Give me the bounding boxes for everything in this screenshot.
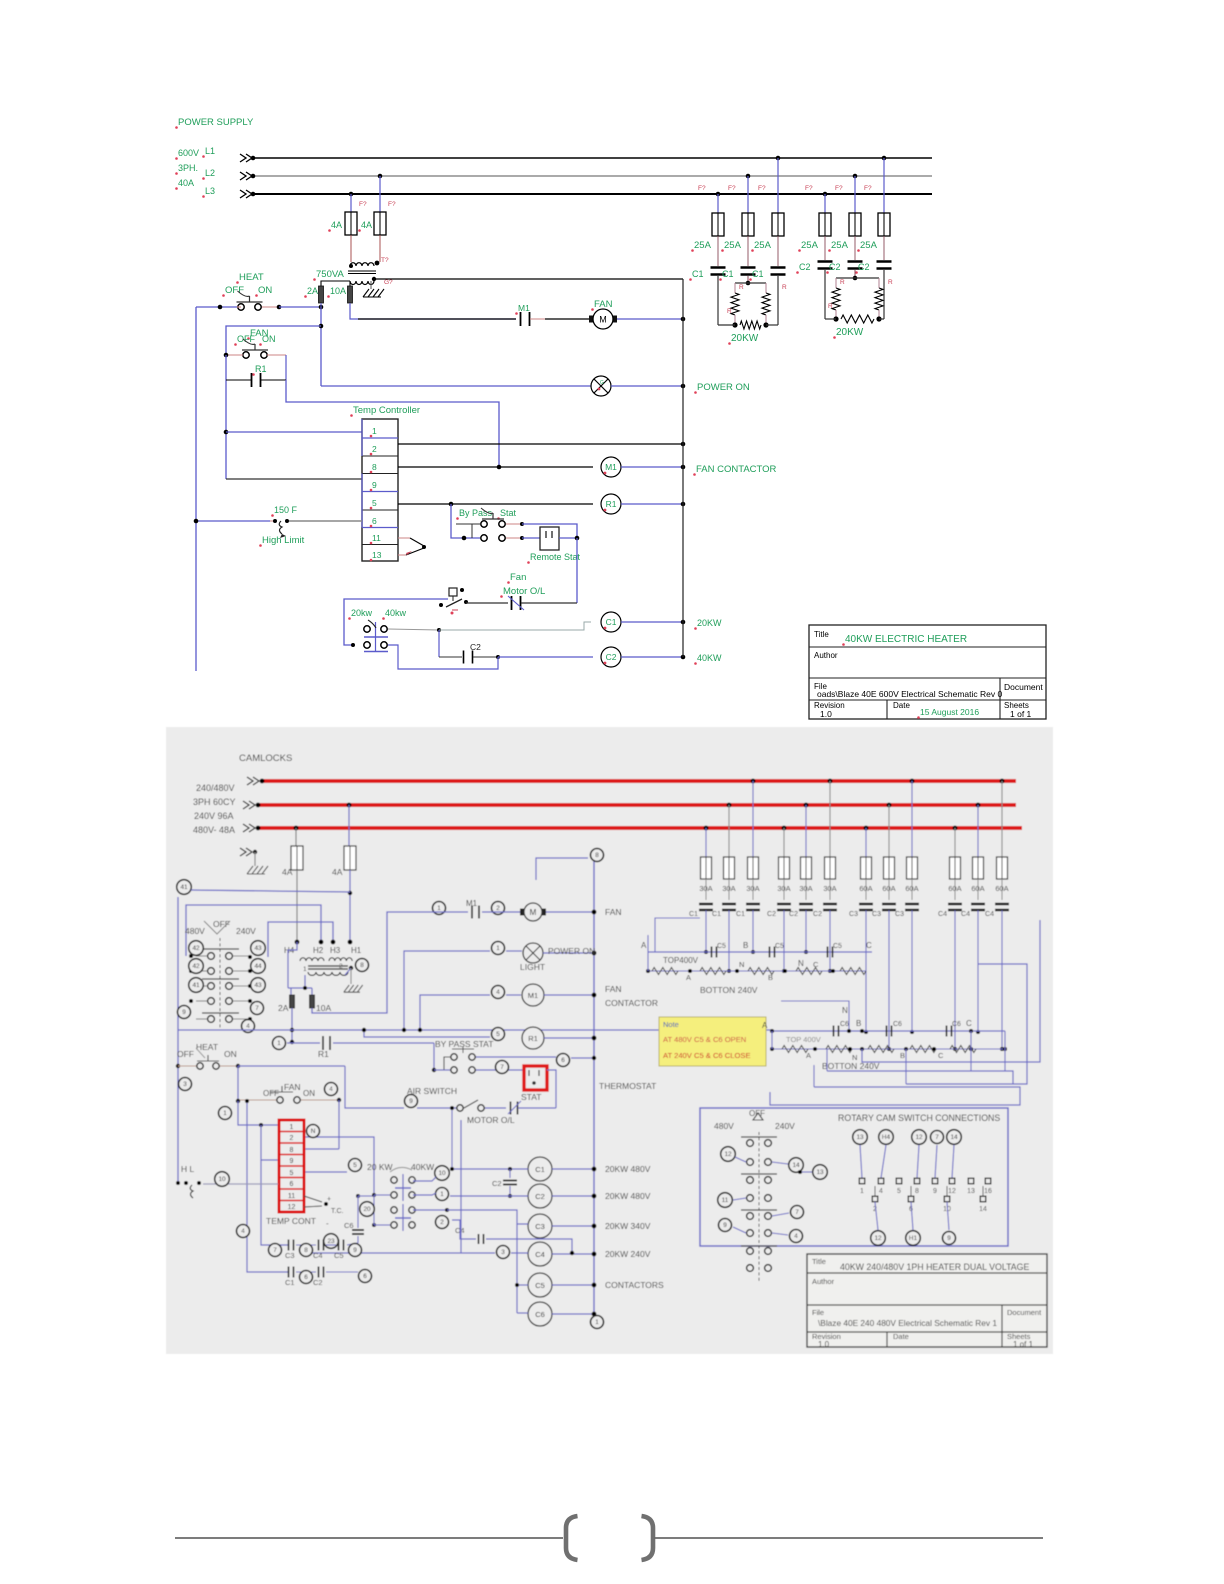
svg-text:20kw: 20kw <box>351 608 373 618</box>
svg-text:Title: Title <box>814 630 829 639</box>
net2 N riser <box>848 1013 850 1031</box>
AIR SWITCH row <box>345 1066 404 1108</box>
node L2 tap for control fuse F2 <box>378 174 383 179</box>
bypass contacts bottom <box>451 1054 457 1060</box>
svg-text:25A: 25A <box>831 240 849 251</box>
circled 4 fan <box>325 1083 338 1096</box>
fuse 60A col 7 <box>864 826 869 831</box>
fuse 25A column x=825 <box>823 192 828 197</box>
bus L1 red <box>262 779 1016 783</box>
svg-text:20KW: 20KW <box>836 327 864 338</box>
svg-text:6: 6 <box>561 1057 565 1064</box>
network 1 resistor row <box>648 970 866 972</box>
circled 7 <box>251 1002 264 1015</box>
net1 risers <box>647 935 649 971</box>
R1 coil row bottom <box>364 1030 490 1037</box>
C1 row wiring <box>413 1177 436 1181</box>
circled 23 <box>324 1234 339 1249</box>
svg-text:BOTTON 240V: BOTTON 240V <box>700 985 758 995</box>
fuse 60A col 10 <box>953 826 958 831</box>
node fuse2A bottom <box>319 305 324 310</box>
svg-text:FAN CONTACTOR: FAN CONTACTOR <box>696 464 777 475</box>
aux contact C2 <box>439 656 462 658</box>
wire R1 coil to rail <box>621 503 683 505</box>
circled 8 transformer <box>356 959 369 972</box>
svg-text:G: G <box>600 380 604 386</box>
net2 long returns <box>970 1031 972 1071</box>
R1 contact row bottom <box>273 1037 286 1050</box>
fuse 4A #1 bottom schem <box>291 846 303 870</box>
svg-text:B: B <box>900 1051 905 1060</box>
wire 2A fuse to HEAT row <box>320 303 322 307</box>
svg-text:20: 20 <box>363 1206 371 1213</box>
svg-text:H1: H1 <box>909 1235 918 1242</box>
wire selector bottom path <box>388 645 498 669</box>
rotary selector stem <box>758 1132 760 1282</box>
svg-text:C6: C6 <box>344 1221 354 1230</box>
contactor contact C4 col 11 <box>971 903 985 905</box>
svg-text:R1: R1 <box>255 364 267 374</box>
circled 9 air <box>405 1095 418 1108</box>
wire bottom contact <box>506 537 522 539</box>
svg-text:15 August 2016: 15 August 2016 <box>920 707 979 717</box>
HEAT switch bottom schem <box>176 1064 180 1068</box>
svg-text:9: 9 <box>372 480 377 490</box>
contactor contact C4 col 12 <box>995 903 1009 905</box>
svg-text:14: 14 <box>979 1206 987 1213</box>
contactor contact C4 col 10 <box>948 903 962 905</box>
svg-text:C: C <box>866 941 872 950</box>
svg-text:750VA: 750VA <box>316 269 344 280</box>
wire FAN switch out <box>267 354 286 356</box>
svg-text:5: 5 <box>897 1188 901 1195</box>
wire HEAT switch to node <box>262 306 321 308</box>
wire M1 coil to rail <box>621 466 683 468</box>
contactor contact C1 x=748 <box>741 266 756 269</box>
wire R1 contact branch <box>285 355 287 380</box>
svg-text:1.0: 1.0 <box>818 1340 830 1349</box>
motor FAN <box>589 316 594 323</box>
svg-text:H L: H L <box>181 1164 195 1174</box>
svg-text:2: 2 <box>440 1219 444 1226</box>
wire heat row right <box>238 1065 345 1067</box>
motor OL contact <box>510 1102 512 1115</box>
svg-text:MOTOR O/L: MOTOR O/L <box>467 1115 515 1125</box>
svg-text:Fan: Fan <box>510 572 526 583</box>
circled 42 b <box>189 959 204 974</box>
svg-text:C5: C5 <box>833 943 842 950</box>
wire C1 coil to rail <box>621 621 683 623</box>
wire C2 coil to rail <box>621 656 683 658</box>
wire 20kw selector feed <box>344 599 448 645</box>
svg-text:25A: 25A <box>724 240 742 251</box>
red STAT box <box>524 1066 547 1090</box>
svg-text:9: 9 <box>182 1009 186 1016</box>
svg-text:6: 6 <box>290 1181 294 1188</box>
svg-text:R: R <box>727 308 732 315</box>
network 2 resistor row <box>772 1048 1005 1050</box>
node L3 tap for control fuse F1 <box>349 192 354 197</box>
fuse 4A #2 bottom schem <box>344 846 356 870</box>
svg-text:5: 5 <box>290 1170 294 1177</box>
wire pin1 <box>226 431 362 433</box>
svg-text:5: 5 <box>353 1162 357 1169</box>
svg-text:8: 8 <box>304 1247 308 1254</box>
svg-text:M1: M1 <box>518 303 530 313</box>
thermocouple lines from pins 11 13 <box>398 537 410 539</box>
svg-text:40A: 40A <box>178 178 194 188</box>
contactor contact C3 col 9 <box>905 903 919 905</box>
svg-text:4A: 4A <box>282 867 293 877</box>
ground symbol <box>363 289 369 297</box>
svg-text:B: B <box>768 973 773 982</box>
rotary circled 14 <box>789 1158 804 1173</box>
transformer ground stub b <box>350 968 352 984</box>
stub net2 mid <box>905 1049 907 1084</box>
temp controller blue highlights <box>362 437 398 439</box>
rotary circled 12 <box>721 1147 736 1162</box>
heater resistor bottom <box>740 321 761 329</box>
circled 41 node <box>177 880 192 895</box>
wire pin9 <box>226 478 362 480</box>
svg-text:C1: C1 <box>722 269 734 279</box>
svg-text:FAN: FAN <box>284 1082 301 1092</box>
wire bus3 to 4A fuse 1 <box>295 828 297 846</box>
svg-text:14: 14 <box>792 1162 800 1169</box>
svg-text:12: 12 <box>948 1188 956 1195</box>
svg-text:N: N <box>739 960 744 969</box>
svg-text:CONTACTORS: CONTACTORS <box>605 1280 664 1290</box>
contact M1 (fan motor) <box>520 312 522 326</box>
svg-text:Author: Author <box>812 1277 835 1286</box>
wire 10A to fan feed <box>312 912 430 1013</box>
title block bottom schematic <box>807 1254 1047 1347</box>
svg-text:3: 3 <box>183 1081 187 1088</box>
wire bus2 to 4A fuse 2 <box>348 805 350 846</box>
svg-text:4: 4 <box>241 1228 245 1235</box>
wire stat box right <box>547 1070 556 1108</box>
return run y1087 <box>770 1087 1020 1105</box>
svg-text:C: C <box>966 1019 972 1028</box>
node bus2 to fuse F2 <box>347 803 352 808</box>
rotary circled 13 <box>813 1165 828 1180</box>
svg-text:HEAT: HEAT <box>239 272 264 283</box>
wire to 2A fuse <box>290 988 292 995</box>
svg-text:Document: Document <box>1004 682 1043 692</box>
wire R1 branch to pin8 row <box>286 380 499 467</box>
remote stat box <box>540 527 559 550</box>
svg-text:9: 9 <box>947 1235 951 1242</box>
FAN branch vertical left <box>225 355 227 479</box>
POWER ON row bottom <box>404 951 490 1030</box>
svg-text:25A: 25A <box>694 240 712 251</box>
svg-text:M1: M1 <box>605 462 617 472</box>
long vertical x261 <box>261 1160 288 1245</box>
svg-text:20 KW: 20 KW <box>367 1162 393 1172</box>
svg-text:FAN: FAN <box>594 299 613 310</box>
svg-text:9: 9 <box>723 1222 727 1229</box>
wire 2A down to R1 row <box>291 1008 293 1043</box>
svg-text:CAMLOCKS: CAMLOCKS <box>239 753 292 764</box>
pin2 wire to kw selector <box>304 1137 374 1195</box>
svg-text:Document: Document <box>1007 1308 1042 1317</box>
svg-text:M: M <box>599 315 607 325</box>
pilot lamp POWER ON <box>591 376 611 396</box>
svg-text:Temp Controller: Temp Controller <box>353 405 420 416</box>
svg-text:HEAT: HEAT <box>196 1042 218 1052</box>
svg-text:4A: 4A <box>331 220 342 230</box>
svg-text:8: 8 <box>360 962 364 969</box>
footer rule left <box>175 1537 563 1539</box>
svg-text:C1: C1 <box>736 911 745 918</box>
node fan-branch tap <box>319 324 324 329</box>
svg-text:POWER ON: POWER ON <box>697 382 750 393</box>
contactor contact C2 x=884 <box>877 260 892 263</box>
rotary circled 7 <box>791 1206 804 1219</box>
svg-text:Author: Author <box>814 651 838 660</box>
svg-text:40KW 240/480V 1PH HEATER DUAL: 40KW 240/480V 1PH HEATER DUAL VOLTAGE <box>840 1262 1030 1272</box>
fuse 25A column x=855 <box>853 174 858 179</box>
wire pin5 to R1 coil <box>398 503 593 505</box>
svg-text:11: 11 <box>722 1197 729 1204</box>
svg-text:H1: H1 <box>351 946 362 955</box>
wire L3 bus <box>253 193 932 195</box>
circled 10 kw <box>435 1166 450 1181</box>
kw selector switch <box>364 626 370 632</box>
svg-text:43: 43 <box>254 982 262 989</box>
svg-text:H2: H2 <box>313 946 324 955</box>
heater resistor bottom <box>841 315 874 323</box>
svg-text:N: N <box>842 1006 848 1015</box>
svg-text:600V: 600V <box>178 148 199 158</box>
circled 7 stat <box>496 1061 509 1074</box>
wire L2 to fuse F2 <box>379 176 381 212</box>
svg-text:T.C.: T.C. <box>331 1208 344 1215</box>
svg-text:FAN: FAN <box>605 984 622 994</box>
svg-text:POWER ON: POWER ON <box>548 946 595 956</box>
wire fan branch <box>338 1100 340 1149</box>
svg-text:F?: F? <box>728 185 736 192</box>
thermocouple to temp controller <box>304 1196 322 1202</box>
footer right brace <box>642 1516 654 1560</box>
riser to C1 row <box>451 1108 453 1169</box>
control transformer bottom schem <box>295 940 300 945</box>
svg-text:C4: C4 <box>961 911 970 918</box>
svg-text:1.0: 1.0 <box>820 709 832 719</box>
bypass-stat switch contacts <box>481 521 487 527</box>
svg-text:C5: C5 <box>775 943 784 950</box>
wire R1 row down to bypass bottom row <box>433 1043 435 1070</box>
svg-text:1: 1 <box>290 1124 294 1131</box>
left outer rail <box>177 897 179 1183</box>
svg-text:BY PASS STAT: BY PASS STAT <box>435 1039 493 1049</box>
svg-text:L2: L2 <box>205 168 215 178</box>
svg-text:2: 2 <box>339 963 343 970</box>
circled 6 stat <box>557 1054 570 1067</box>
svg-text:C5: C5 <box>334 1251 344 1260</box>
svg-text:1: 1 <box>595 1319 599 1326</box>
svg-text:R: R <box>840 279 845 286</box>
heater resistor right <box>875 288 883 310</box>
long control feed wire <box>178 1030 772 1032</box>
voltage selector switch rows <box>219 938 221 1030</box>
wire left rail to HEAT switch <box>196 306 237 308</box>
network 1 top 400V <box>648 951 872 953</box>
svg-text:ROTARY CAM SWITCH CONNECTIONS: ROTARY CAM SWITCH CONNECTIONS <box>838 1113 1000 1123</box>
svg-text:5: 5 <box>372 498 377 508</box>
circled 3 <box>179 1078 192 1091</box>
svg-text:C2: C2 <box>767 911 776 918</box>
rotary terminals diagram <box>853 1130 868 1145</box>
svg-text:R: R <box>782 284 787 291</box>
svg-text:TOP400V: TOP400V <box>663 956 699 965</box>
svg-text:1 of 1: 1 of 1 <box>1013 1340 1034 1349</box>
contactor contact C2 col 4 <box>777 903 791 905</box>
svg-text:240V: 240V <box>775 1121 795 1131</box>
contactor contact C1 col 3 <box>746 903 760 905</box>
fuse 30A col 3 <box>751 779 756 784</box>
svg-text:20KW: 20KW <box>697 618 722 628</box>
svg-text:4A: 4A <box>361 220 372 230</box>
svg-text:POWER SUPPLY: POWER SUPPLY <box>178 117 254 128</box>
svg-text:1: 1 <box>303 966 307 973</box>
svg-text:25A: 25A <box>754 240 772 251</box>
wire to C2 coil <box>498 656 593 658</box>
svg-text:\Blaze 40E 240 480V Electrical: \Blaze 40E 240 480V Electrical Schematic… <box>818 1318 997 1328</box>
svg-text:C3: C3 <box>849 911 858 918</box>
bus L2 red <box>258 803 1016 807</box>
svg-text:5: 5 <box>496 1031 500 1038</box>
svg-text:12: 12 <box>915 1134 923 1141</box>
svg-text:4: 4 <box>246 1023 250 1030</box>
svg-text:THERMOSTAT: THERMOSTAT <box>599 1081 656 1091</box>
svg-text:7: 7 <box>255 1005 259 1012</box>
svg-text:2: 2 <box>496 905 500 912</box>
svg-text:C4: C4 <box>938 911 947 918</box>
svg-text:1 of 1: 1 of 1 <box>1010 709 1032 719</box>
overload contact fan motor OL <box>466 602 508 604</box>
svg-text:F?: F? <box>359 201 367 208</box>
svg-text:C3: C3 <box>285 1251 295 1260</box>
svg-text:T?: T? <box>381 257 389 264</box>
svg-text:C2: C2 <box>829 262 841 272</box>
aux switch icon <box>449 588 457 596</box>
fuse 2A bottom schem <box>290 995 295 1008</box>
voltage selector enclosure wires <box>186 905 321 956</box>
svg-text:13: 13 <box>372 550 382 560</box>
svg-text:C2: C2 <box>313 1278 323 1287</box>
wire selector to C1 row <box>388 629 439 630</box>
svg-text:OFF: OFF <box>263 1089 279 1098</box>
contactor contact C1 x=778 <box>771 266 786 269</box>
wire secondary left to control fuses <box>321 281 350 286</box>
svg-text:9: 9 <box>290 1158 294 1165</box>
supply arrow L3 <box>240 190 246 198</box>
caps row 2 bottom left <box>288 1267 290 1278</box>
air switch feed to C4 row <box>460 1120 462 1253</box>
wire pin8 to M1 coil <box>398 466 593 468</box>
fuse 30A col 4 <box>782 826 787 831</box>
heater delta network <box>824 270 826 319</box>
svg-text:F?: F? <box>805 185 813 192</box>
heater delta network <box>717 276 719 325</box>
long vertical x247 <box>247 1101 288 1272</box>
svg-text:40KW ELECTRIC HEATER: 40KW ELECTRIC HEATER <box>845 634 967 645</box>
circled 4 on x247 <box>237 1225 250 1238</box>
wire fuse F2 to transformer <box>379 235 381 262</box>
rotary circled 9 <box>719 1219 732 1232</box>
heater resistor right <box>762 293 770 315</box>
wire L2 bus <box>253 175 932 177</box>
svg-text:C4: C4 <box>313 1251 323 1260</box>
contactor contact C3 col 8 <box>882 903 896 905</box>
svg-text:C2: C2 <box>813 911 822 918</box>
heater resistor left <box>832 288 840 310</box>
fuse 10A bottom schem <box>310 995 315 1008</box>
wire L3 to fuse F1 <box>350 194 352 212</box>
svg-text:G?: G? <box>384 279 393 286</box>
svg-text:H3: H3 <box>330 946 341 955</box>
svg-text:4: 4 <box>879 1188 883 1195</box>
net2 N loop <box>781 1001 849 1013</box>
svg-text:C1: C1 <box>285 1278 295 1287</box>
svg-text:High Limit: High Limit <box>262 535 305 546</box>
svg-text:20KW 480V: 20KW 480V <box>605 1164 651 1174</box>
svg-text:10A: 10A <box>330 286 346 296</box>
svg-text:A: A <box>806 1051 811 1060</box>
svg-text:C1: C1 <box>606 617 617 627</box>
fuse 25A column x=748 <box>746 174 751 179</box>
transformer T1 750VA <box>350 263 374 266</box>
svg-text:12: 12 <box>288 1204 296 1211</box>
svg-text:8: 8 <box>595 852 599 859</box>
wire fuse2 down to transformer H1 <box>349 870 351 942</box>
wire selector branch down <box>438 630 440 657</box>
coil R1 <box>601 494 621 514</box>
svg-text:R1: R1 <box>606 499 617 509</box>
svg-text:40kw: 40kw <box>385 608 407 618</box>
svg-text:240V: 240V <box>236 926 256 936</box>
coil C2 <box>601 647 621 667</box>
wire junction down to OL row <box>576 538 578 603</box>
fuse 2A <box>319 286 324 303</box>
circled 1 rail bottom <box>591 1316 604 1329</box>
svg-text:Motor O/L: Motor O/L <box>503 586 545 597</box>
svg-text:13: 13 <box>967 1188 975 1195</box>
pin8 wire to fan switch <box>304 1148 339 1150</box>
svg-text:A: A <box>641 941 647 950</box>
fuse 60A col 11 <box>976 803 981 808</box>
contactor contact C3 col 7 <box>859 903 873 905</box>
svg-text:2A: 2A <box>307 286 318 296</box>
wire L1 bus <box>253 157 932 159</box>
contactor contact C1 col 2 <box>722 903 736 905</box>
circled 41 c <box>189 978 204 993</box>
wire OL to stat riser <box>518 1107 556 1109</box>
svg-text:9: 9 <box>353 1247 357 1254</box>
HEAT selector switch <box>237 301 263 303</box>
svg-text:F?: F? <box>698 185 706 192</box>
svg-text:Remote Stat: Remote Stat <box>530 552 581 562</box>
temp controller red box <box>279 1120 304 1212</box>
svg-text:C1: C1 <box>712 911 721 918</box>
circled 42 a <box>189 941 204 956</box>
wire tap to FAN switch rail <box>226 326 321 355</box>
svg-text:B: B <box>856 1019 861 1028</box>
heater resistor left <box>731 293 739 315</box>
svg-text:C6: C6 <box>952 1021 961 1028</box>
svg-text:4: 4 <box>496 989 500 996</box>
